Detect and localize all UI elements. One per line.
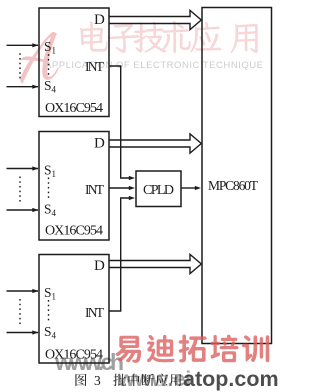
UART U2 OX16C954	[39, 132, 109, 241]
svg-text:CPLD: CPLD	[143, 183, 174, 198]
svg-text:D: D	[94, 258, 105, 274]
wire INT1 to CPLD	[109, 66, 135, 180]
svg-text:INT: INT	[85, 59, 105, 74]
dotted line outside	[19, 299, 21, 325]
svg-text:OX16C954: OX16C954	[45, 348, 103, 363]
svg-text:D: D	[94, 12, 105, 28]
watermark flourish logo	[20, 32, 59, 84]
wire S1 input arrow	[7, 289, 39, 293]
wire S4 input arrow	[7, 208, 39, 212]
bus D2 arrow	[109, 134, 201, 153]
watermark text 易迪拓培训	[115, 335, 269, 363]
bus D1 arrow	[109, 10, 201, 29]
caption 图3 批中断应用	[75, 373, 181, 388]
processor U4 MPC860T	[202, 8, 272, 344]
dotted line outside	[19, 177, 21, 203]
watermark text 电子技术应用	[80, 21, 258, 53]
dotted line inside	[48, 178, 50, 202]
svg-text:D: D	[94, 136, 105, 152]
svg-text:3: 3	[94, 373, 101, 388]
bus D3 arrow	[109, 254, 201, 273]
svg-text:OX16C954: OX16C954	[45, 224, 103, 239]
svg-text:APPLICATION OF ELECTRONIC TECH: APPLICATION OF ELECTRONIC TECHNIQUE	[45, 60, 263, 71]
UART U3 OX16C954	[39, 255, 109, 364]
svg-text:atop.com: atop.com	[183, 367, 278, 391]
dotted line outside	[19, 53, 21, 78]
dotted line inside	[48, 54, 50, 77]
svg-text:OX16C954: OX16C954	[45, 101, 103, 116]
wire INT3 to CPLD	[109, 196, 135, 311]
wire S1 input arrow	[7, 166, 39, 170]
svg-text:INT: INT	[85, 182, 105, 197]
CPLD U5	[136, 171, 181, 207]
svg-text:INT: INT	[85, 305, 105, 320]
wire S4 input arrow	[7, 330, 39, 334]
wire CPLD to MPC860T	[181, 186, 201, 190]
dotted line inside	[48, 300, 50, 324]
UART U1 OX16C954	[39, 8, 109, 117]
wire S1 input arrow	[7, 43, 39, 47]
svg-text:MPC860T: MPC860T	[208, 178, 259, 193]
wire INT2 to CPLD	[109, 186, 135, 190]
wire S4 input arrow	[7, 85, 39, 89]
